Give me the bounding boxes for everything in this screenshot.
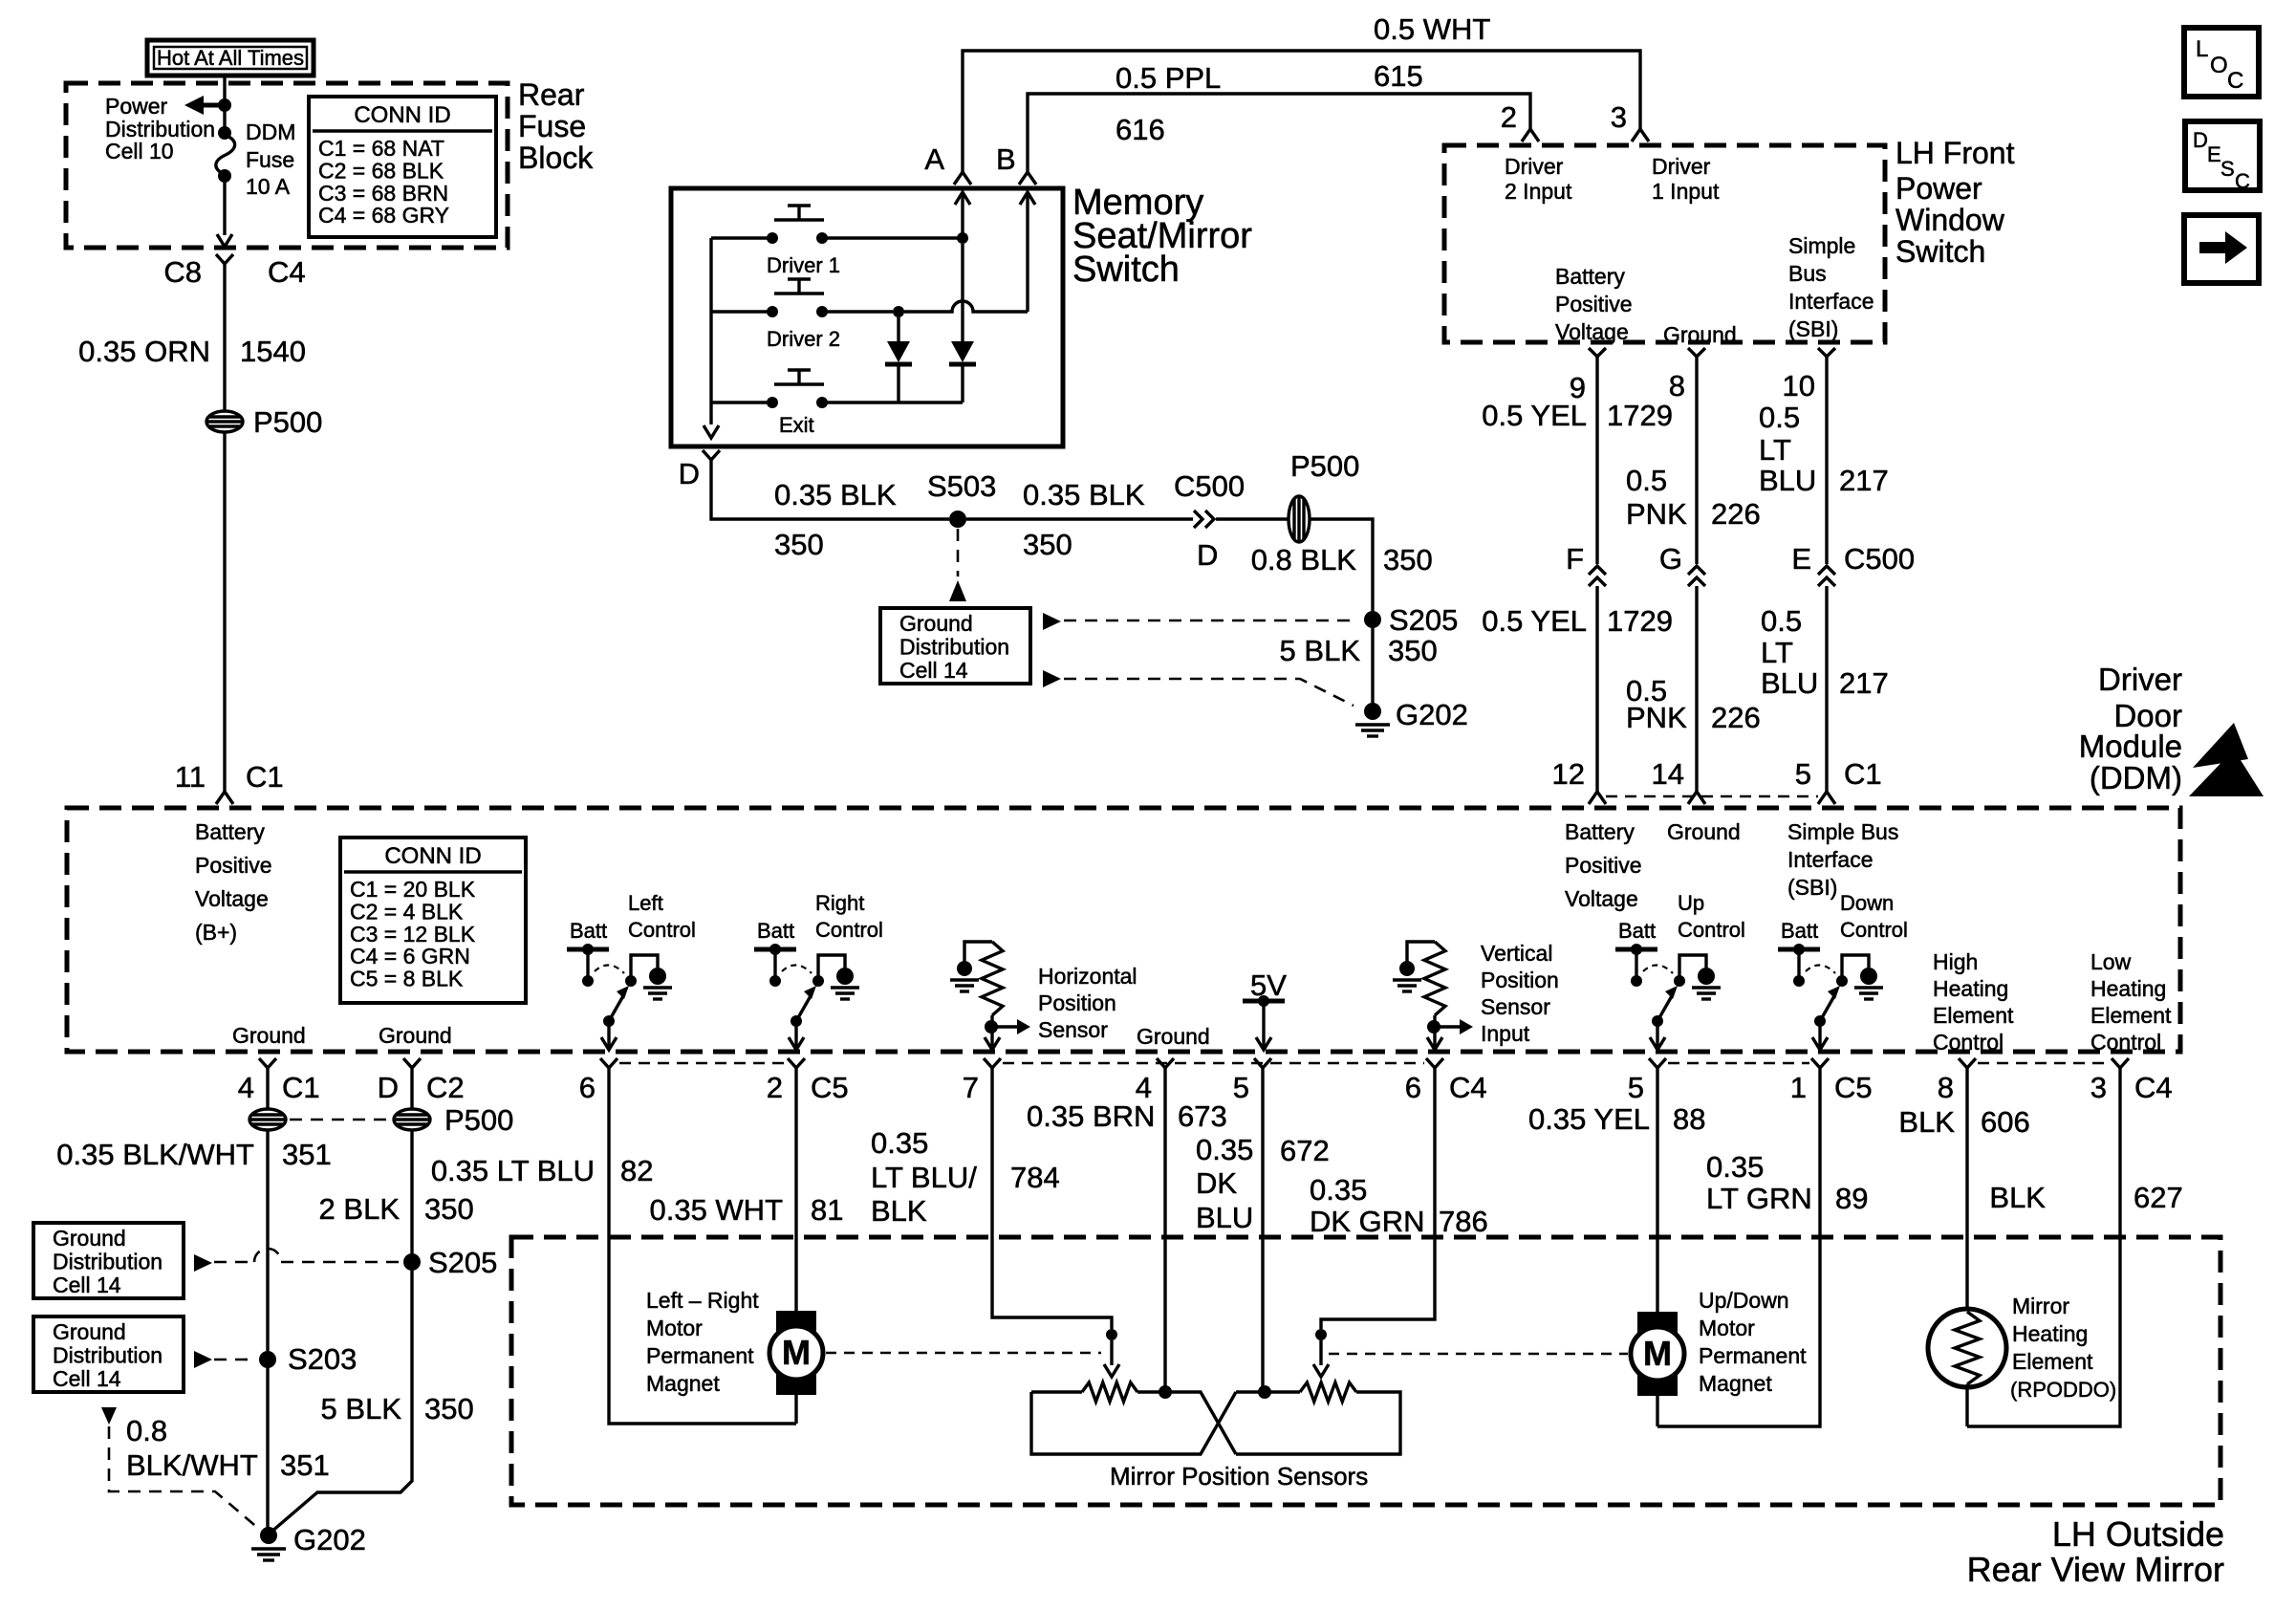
wire 1729 0.5 YEL (pin 9 to C500 F) bbox=[1595, 357, 1598, 564]
heater Mirror Heating Element RPODDO bbox=[1928, 1309, 2006, 1387]
svg-text:0.35 BLK: 0.35 BLK bbox=[774, 478, 897, 511]
svg-text:Control: Control bbox=[1933, 1030, 2004, 1055]
connector C8/C4 bbox=[216, 254, 233, 264]
junction box Ground Distribution Cell 14 (lower left) bbox=[33, 1316, 184, 1392]
splice S205 (left) bbox=[403, 1253, 421, 1271]
wire fuse to connector C8/C4 bbox=[223, 176, 226, 235]
svg-text:Control: Control bbox=[1840, 918, 1908, 942]
svg-text:Driver: Driver bbox=[1505, 154, 1564, 179]
svg-text:Positive: Positive bbox=[1555, 292, 1633, 316]
wiper horizontal sensor bbox=[1106, 1329, 1117, 1340]
svg-text:Left: Left bbox=[628, 891, 663, 915]
svg-text:Control: Control bbox=[815, 918, 883, 942]
node A-wire / Driver 1 bbox=[957, 232, 968, 244]
svg-text:Motor: Motor bbox=[1699, 1316, 1755, 1340]
icon ESD sensitive bbox=[2193, 723, 2248, 768]
pin 8 bbox=[1688, 348, 1705, 357]
svg-text:10: 10 bbox=[1783, 369, 1815, 402]
svg-text:Battery: Battery bbox=[1565, 819, 1635, 844]
svg-text:82: 82 bbox=[620, 1154, 653, 1187]
wire C500 to P500 bbox=[1216, 517, 1289, 520]
svg-text:217: 217 bbox=[1839, 464, 1889, 497]
svg-text:Positive: Positive bbox=[1565, 853, 1642, 878]
svg-text:7: 7 bbox=[963, 1071, 979, 1104]
arrow up on A wire inside switch bbox=[961, 192, 964, 238]
pin 8 at DDM bottom x=2058 bbox=[1959, 1058, 1976, 1068]
svg-text:Ground: Ground bbox=[53, 1319, 126, 1344]
svg-text:Control: Control bbox=[2090, 1030, 2161, 1055]
svg-text:Driver: Driver bbox=[1652, 154, 1711, 179]
svg-text:Ground: Ground bbox=[1667, 819, 1741, 844]
wire 81 0.35 WHT (pin 2 to motor) bbox=[794, 1068, 797, 1312]
svg-text:(DDM): (DDM) bbox=[2090, 760, 2182, 795]
pin B bbox=[1019, 172, 1036, 185]
switch Driver 2 bbox=[774, 292, 824, 294]
svg-text:0.5 YEL: 0.5 YEL bbox=[1482, 399, 1587, 432]
svg-text:4: 4 bbox=[238, 1071, 254, 1104]
svg-text:6: 6 bbox=[1405, 1071, 1421, 1104]
svg-text:BLU: BLU bbox=[1759, 464, 1816, 497]
svg-text:C1: C1 bbox=[282, 1071, 320, 1104]
svg-text:8: 8 bbox=[1669, 369, 1685, 402]
svg-text:Exit: Exit bbox=[779, 413, 814, 437]
svg-text:C2: C2 bbox=[426, 1071, 465, 1104]
connector outline DDM top C1 bbox=[1606, 795, 1818, 797]
svg-text:Fuse: Fuse bbox=[518, 109, 586, 143]
svg-text:Batt: Batt bbox=[570, 919, 607, 943]
svg-text:Battery: Battery bbox=[195, 819, 265, 844]
svg-text:88: 88 bbox=[1673, 1102, 1705, 1136]
wire 350 5 BLK (S205 to G202) bbox=[1371, 628, 1374, 704]
pin 2/C5 at DDM bottom x=833 bbox=[788, 1058, 805, 1068]
wire 89 0.35 LT GRN (motor to pin 1) bbox=[1657, 1068, 1820, 1426]
svg-text:0.35 BLK/WHT: 0.35 BLK/WHT bbox=[56, 1138, 254, 1171]
motor Left-Right Permanent Magnet bbox=[776, 1311, 816, 1332]
wire 217 0.5 LT BLU (E to DDM pin 5) bbox=[1825, 586, 1828, 792]
wire pin4 P500 to S203 bbox=[266, 1129, 269, 1352]
svg-text:Positive: Positive bbox=[195, 853, 272, 878]
arrow 351 0.8 BLK/WHT to G202 (dashed) bbox=[101, 1407, 117, 1425]
svg-text:5V: 5V bbox=[1250, 968, 1287, 1002]
svg-text:D: D bbox=[2193, 128, 2208, 152]
switch Driver 1 bbox=[774, 218, 824, 221]
splice S205 bbox=[1364, 611, 1381, 628]
svg-text:Ground: Ground bbox=[1663, 322, 1737, 347]
svg-text:G202: G202 bbox=[1396, 698, 1468, 731]
svg-text:C4: C4 bbox=[2134, 1071, 2173, 1104]
pin 1/C5 at DDM bottom x=1904 bbox=[1811, 1058, 1829, 1068]
svg-text:Ground: Ground bbox=[1137, 1024, 1210, 1049]
svg-text:5 BLK: 5 BLK bbox=[321, 1392, 402, 1425]
connector P500 (left) bbox=[206, 411, 243, 432]
resistor Mirror Position Sensors bbox=[1031, 1390, 1082, 1393]
svg-text:(RPODDO): (RPODDO) bbox=[2010, 1378, 2116, 1402]
connector outlines DDM bottom (dashed) bbox=[619, 1062, 786, 1064]
svg-text:Distribution: Distribution bbox=[53, 1250, 162, 1274]
svg-text:3: 3 bbox=[1611, 100, 1627, 134]
junction box Ground Distribution Cell 14 (upper left) bbox=[33, 1223, 184, 1298]
svg-text:S503: S503 bbox=[927, 469, 996, 503]
svg-text:Voltage: Voltage bbox=[1555, 319, 1629, 344]
svg-text:Element: Element bbox=[1933, 1003, 2014, 1028]
pin 12 into DDM bbox=[1589, 792, 1606, 804]
svg-text:BLK: BLK bbox=[1989, 1181, 2046, 1214]
svg-text:E: E bbox=[2207, 142, 2221, 166]
pin 14 into DDM bbox=[1688, 792, 1705, 804]
svg-text:Bus: Bus bbox=[1788, 261, 1827, 286]
svg-text:Cell 14: Cell 14 bbox=[899, 658, 968, 683]
svg-text:1729: 1729 bbox=[1607, 604, 1673, 638]
svg-text:Heating: Heating bbox=[1933, 976, 2008, 1001]
splice S203 bbox=[259, 1351, 276, 1368]
svg-text:Voltage: Voltage bbox=[195, 886, 269, 911]
svg-text:Voltage: Voltage bbox=[1565, 886, 1638, 911]
svg-text:Horizontal: Horizontal bbox=[1038, 964, 1137, 989]
table CONN ID (DDM) bbox=[340, 838, 526, 1003]
svg-text:1729: 1729 bbox=[1607, 399, 1673, 432]
svg-text:Interface: Interface bbox=[1788, 289, 1874, 314]
svg-text:Batt: Batt bbox=[1618, 919, 1656, 943]
pin 5 at DDM bottom x=1734 bbox=[1649, 1058, 1666, 1068]
svg-text:12: 12 bbox=[1552, 757, 1585, 791]
dashed tie P500 pair bbox=[290, 1119, 390, 1121]
svg-text:C1 = 68 NAT: C1 = 68 NAT bbox=[318, 136, 444, 161]
svg-text:0.5: 0.5 bbox=[1759, 401, 1800, 434]
pin 4/C1 at DDM bottom x=280 bbox=[259, 1058, 276, 1068]
motor Up/Down Permanent Magnet bbox=[1637, 1312, 1678, 1333]
svg-text:350: 350 bbox=[1023, 528, 1072, 561]
svg-text:0.35 WHT: 0.35 WHT bbox=[649, 1193, 783, 1227]
svg-text:Down: Down bbox=[1840, 891, 1894, 915]
wire 82 0.35 LT BLU (pin 6 to motor) bbox=[609, 1068, 776, 1424]
wire 615 0.5 WHT (A to window switch pin 3) bbox=[963, 51, 1640, 172]
pin D/C2 at DDM bottom x=431 bbox=[403, 1058, 421, 1068]
mechanical link left-right motor to sensor (dashed) bbox=[826, 1352, 1101, 1354]
svg-text:2 BLK: 2 BLK bbox=[319, 1192, 401, 1226]
svg-text:Vertical: Vertical bbox=[1481, 941, 1552, 966]
svg-text:Motor: Motor bbox=[646, 1316, 703, 1340]
svg-text:Simple: Simple bbox=[1788, 233, 1855, 258]
pin 9 bbox=[1589, 348, 1606, 357]
svg-text:350: 350 bbox=[1383, 543, 1433, 577]
svg-text:10 A: 10 A bbox=[246, 174, 291, 199]
wire 673 0.35 BRN (pin 4 to sensors) bbox=[1163, 1068, 1166, 1386]
svg-text:(B+): (B+) bbox=[195, 920, 237, 945]
wire 616 0.5 PPL (B to window switch pin 2) bbox=[1028, 94, 1530, 172]
svg-text:89: 89 bbox=[1835, 1182, 1868, 1215]
svg-text:Hot At All Times: Hot At All Times bbox=[157, 46, 304, 70]
node diode 1 tap bbox=[893, 306, 904, 317]
svg-text:Module: Module bbox=[2079, 729, 2182, 764]
pin 11 C1 into DDM bbox=[216, 792, 233, 804]
svg-text:0.35 LT BLU: 0.35 LT BLU bbox=[431, 1154, 595, 1187]
svg-text:M: M bbox=[782, 1333, 811, 1372]
svg-text:Sensor: Sensor bbox=[1038, 1017, 1108, 1042]
svg-text:LT: LT bbox=[1761, 636, 1793, 669]
svg-text:(SBI): (SBI) bbox=[1788, 316, 1838, 341]
svg-text:Power: Power bbox=[1895, 171, 1982, 206]
svg-text:C1: C1 bbox=[1844, 757, 1882, 791]
svg-text:5 BLK: 5 BLK bbox=[1280, 634, 1361, 667]
svg-text:BLU: BLU bbox=[1196, 1201, 1253, 1234]
svg-text:P500: P500 bbox=[1290, 449, 1359, 483]
svg-text:Rear View Mirror: Rear View Mirror bbox=[1967, 1550, 2224, 1589]
ground G202 (left) bbox=[260, 1527, 277, 1544]
svg-text:Switch: Switch bbox=[1072, 250, 1180, 290]
connector P500 (D row) bbox=[1289, 496, 1310, 542]
svg-text:C2 = 68 BLK: C2 = 68 BLK bbox=[318, 158, 444, 183]
arrow up on B wire inside switch bbox=[1026, 192, 1029, 312]
switch Right Control bbox=[754, 947, 796, 952]
svg-text:High: High bbox=[1933, 949, 1978, 974]
component box Memory Seat/Mirror Switch bbox=[671, 188, 1063, 446]
arrow Ground Distribution to S205 bbox=[1043, 613, 1061, 630]
node junction to Power Distribution bbox=[218, 98, 231, 112]
wire 226 0.5 PNK (G to DDM pin 14) bbox=[1695, 586, 1698, 792]
svg-text:BLK/WHT: BLK/WHT bbox=[126, 1448, 258, 1482]
svg-text:O: O bbox=[2210, 53, 2228, 78]
pin 7 at DDM bottom x=1038 bbox=[984, 1058, 1001, 1068]
arrow to S205 with hop bbox=[194, 1254, 212, 1272]
svg-text:0.5: 0.5 bbox=[1761, 604, 1802, 638]
ground G202 (right) bbox=[1364, 703, 1381, 720]
arrow to S203 bbox=[194, 1351, 212, 1368]
svg-text:Ground: Ground bbox=[232, 1023, 306, 1048]
svg-text:Cell 14: Cell 14 bbox=[53, 1273, 121, 1297]
svg-text:LT GRN: LT GRN bbox=[1706, 1182, 1812, 1215]
svg-text:C1 = 20 BLK: C1 = 20 BLK bbox=[350, 877, 476, 902]
svg-text:C4: C4 bbox=[268, 255, 306, 289]
svg-text:Mirror Position Sensors: Mirror Position Sensors bbox=[1110, 1462, 1368, 1490]
svg-text:0.5 YEL: 0.5 YEL bbox=[1482, 604, 1587, 638]
pin 5 C1 into DDM bbox=[1818, 792, 1835, 804]
svg-text:S205: S205 bbox=[1389, 603, 1458, 637]
svg-text:B: B bbox=[996, 142, 1016, 176]
svg-text:C5: C5 bbox=[1834, 1071, 1873, 1104]
wire 88 0.35 YEL (pin 5 to up/down motor) bbox=[1656, 1068, 1658, 1313]
pin 4 at DDM bottom x=1219 bbox=[1157, 1058, 1174, 1068]
svg-text:Ground: Ground bbox=[53, 1226, 126, 1251]
svg-text:S205: S205 bbox=[428, 1246, 497, 1279]
pin 6/C4 at DDM bottom x=1501 bbox=[1426, 1058, 1443, 1068]
wire 226 0.5 PNK (pin 8 to C500 G) bbox=[1695, 357, 1698, 564]
wire 627 BLK (heating element to pin 3) bbox=[1967, 1068, 2120, 1426]
svg-text:LH Outside: LH Outside bbox=[2052, 1514, 2224, 1554]
svg-text:6: 6 bbox=[579, 1071, 596, 1104]
svg-text:Element: Element bbox=[2012, 1349, 2093, 1374]
svg-text:A: A bbox=[924, 142, 944, 176]
svg-text:784: 784 bbox=[1010, 1161, 1060, 1194]
svg-text:Driver 2: Driver 2 bbox=[767, 327, 840, 351]
connector C500 E bbox=[1818, 566, 1835, 586]
svg-text:Cell 10: Cell 10 bbox=[105, 139, 174, 163]
svg-text:0.5 PPL: 0.5 PPL bbox=[1116, 61, 1221, 95]
icon box arrow bbox=[2184, 215, 2259, 283]
svg-text:673: 673 bbox=[1178, 1099, 1227, 1133]
svg-text:Window: Window bbox=[1895, 203, 2005, 237]
svg-text:350: 350 bbox=[424, 1392, 474, 1425]
svg-text:Magnet: Magnet bbox=[646, 1371, 720, 1396]
connector P500 (pinD wire) bbox=[394, 1109, 430, 1130]
svg-text:Distribution: Distribution bbox=[899, 635, 1009, 660]
svg-text:5: 5 bbox=[1628, 1071, 1644, 1104]
wire 1540 0.35 ORN bbox=[223, 264, 226, 412]
wire 672 0.35 DK BLU (pin 5 to sensors) bbox=[1261, 1068, 1264, 1386]
svg-text:Block: Block bbox=[518, 141, 594, 175]
svg-text:Fuse: Fuse bbox=[246, 147, 294, 172]
svg-text:Power: Power bbox=[105, 94, 168, 119]
arrow to Power Distribution Cell 10 bbox=[202, 103, 225, 108]
svg-text:Up: Up bbox=[1678, 891, 1704, 915]
svg-text:BLK: BLK bbox=[1898, 1105, 1955, 1139]
icon box LOC bbox=[2184, 28, 2259, 97]
wire Driver2 to B with hop over A wire bbox=[904, 301, 1028, 312]
svg-text:C1: C1 bbox=[246, 760, 284, 794]
svg-text:Heating: Heating bbox=[2090, 976, 2166, 1001]
switch Exit bbox=[774, 382, 824, 385]
svg-text:Rear: Rear bbox=[518, 77, 585, 112]
svg-text:8: 8 bbox=[1938, 1071, 1954, 1104]
splice S503 bbox=[949, 511, 966, 528]
svg-text:(SBI): (SBI) bbox=[1787, 875, 1837, 900]
svg-text:M: M bbox=[1643, 1334, 1672, 1373]
svg-text:786: 786 bbox=[1439, 1205, 1488, 1238]
svg-text:Batt: Batt bbox=[1781, 919, 1818, 943]
pin 3 Driver 1 Input bbox=[1632, 129, 1649, 141]
svg-text:0.5: 0.5 bbox=[1626, 464, 1667, 497]
connector P500 (pin4 wire) bbox=[249, 1109, 286, 1130]
pin 6 at DDM bottom x=637 bbox=[600, 1058, 617, 1068]
resistor Vertical Position Sensor bbox=[1407, 942, 1435, 968]
svg-text:Ground: Ground bbox=[899, 611, 973, 636]
arrow Ground Distribution to G202 bbox=[1043, 670, 1061, 687]
svg-text:G: G bbox=[1659, 542, 1682, 576]
table CONN ID (Rear Fuse Block) bbox=[309, 97, 496, 237]
svg-text:Permanent: Permanent bbox=[1699, 1343, 1807, 1368]
svg-text:81: 81 bbox=[811, 1193, 843, 1227]
svg-text:0.8 BLK: 0.8 BLK bbox=[1251, 543, 1357, 577]
svg-text:Right: Right bbox=[815, 891, 864, 915]
svg-text:616: 616 bbox=[1116, 113, 1165, 146]
component box LH Outside Rear View Mirror (dashed) bbox=[511, 1237, 2220, 1505]
connector C500 F bbox=[1589, 566, 1606, 586]
switch Left Control bbox=[567, 947, 609, 952]
svg-text:0.35: 0.35 bbox=[871, 1126, 928, 1160]
svg-text:C500: C500 bbox=[1844, 542, 1915, 576]
pin 2 Driver 2 Input bbox=[1522, 129, 1539, 141]
svg-text:Control: Control bbox=[628, 918, 696, 942]
svg-text:Battery: Battery bbox=[1555, 264, 1625, 289]
svg-text:Element: Element bbox=[2090, 1003, 2172, 1028]
svg-text:BLK: BLK bbox=[871, 1194, 927, 1228]
svg-text:615: 615 bbox=[1374, 59, 1423, 93]
svg-text:L: L bbox=[2196, 36, 2208, 62]
svg-text:C3 = 68 BRN: C3 = 68 BRN bbox=[318, 181, 448, 206]
wire S203 to G202 bbox=[266, 1367, 269, 1530]
svg-text:Permanent: Permanent bbox=[646, 1343, 754, 1368]
wire 350 2 BLK (P500 to S205) bbox=[410, 1129, 413, 1254]
svg-text:Sensor: Sensor bbox=[1481, 994, 1550, 1019]
svg-text:C5 = 8 BLK: C5 = 8 BLK bbox=[350, 967, 464, 991]
svg-text:Driver: Driver bbox=[2098, 662, 2182, 697]
diode CR2 (on A wire) bbox=[961, 244, 964, 341]
svg-text:0.35 ORN: 0.35 ORN bbox=[78, 335, 210, 368]
junction box Hot At All Times bbox=[147, 40, 314, 76]
svg-text:226: 226 bbox=[1711, 701, 1761, 734]
svg-text:Input: Input bbox=[1481, 1021, 1530, 1046]
svg-text:Position: Position bbox=[1038, 990, 1116, 1015]
svg-text:PNK: PNK bbox=[1626, 497, 1687, 531]
svg-text:C4: C4 bbox=[1449, 1071, 1487, 1104]
svg-text:P500: P500 bbox=[253, 405, 322, 439]
wire from Hot At All Times into fuse block bbox=[223, 76, 226, 131]
svg-text:1540: 1540 bbox=[240, 335, 306, 368]
wiper vertical sensor bbox=[1315, 1329, 1327, 1340]
wire 1729 0.5 YEL (F to DDM pin 12) bbox=[1595, 586, 1598, 792]
svg-text:2 Input: 2 Input bbox=[1505, 179, 1572, 204]
wire pin D to P500 bbox=[410, 1068, 413, 1110]
wire 784 0.35 LT BLU/BLK (pin 7 to horizontal sensor wiper) bbox=[992, 1068, 1112, 1329]
pin 10 bbox=[1818, 348, 1835, 357]
svg-text:D: D bbox=[378, 1071, 399, 1104]
svg-text:Switch: Switch bbox=[1895, 234, 1985, 269]
pin A bbox=[954, 172, 971, 185]
svg-text:C500: C500 bbox=[1174, 469, 1245, 503]
svg-text:Heating: Heating bbox=[2012, 1321, 2088, 1346]
svg-text:CONN ID: CONN ID bbox=[354, 102, 450, 128]
svg-text:350: 350 bbox=[1388, 634, 1438, 667]
svg-text:5: 5 bbox=[1795, 757, 1811, 791]
svg-text:D: D bbox=[679, 457, 700, 490]
svg-text:LT: LT bbox=[1759, 433, 1791, 467]
svg-text:350: 350 bbox=[774, 528, 824, 561]
svg-text:606: 606 bbox=[1981, 1105, 2030, 1139]
wire P500 to DDM pin 11 bbox=[223, 431, 226, 792]
fuse DDM Fuse 10 A bbox=[218, 126, 231, 140]
svg-text:Simple Bus: Simple Bus bbox=[1787, 819, 1898, 844]
svg-text:Left – Right: Left – Right bbox=[646, 1288, 759, 1313]
wire 606 BLK (pin 8 to heating element) bbox=[1965, 1068, 1968, 1312]
svg-text:0.35 BRN: 0.35 BRN bbox=[1027, 1099, 1155, 1133]
svg-text:Mirror: Mirror bbox=[2012, 1294, 2069, 1318]
svg-text:Position: Position bbox=[1481, 968, 1559, 992]
svg-text:Interface: Interface bbox=[1787, 847, 1874, 872]
svg-text:350: 350 bbox=[424, 1192, 474, 1226]
svg-text:S203: S203 bbox=[288, 1342, 357, 1376]
svg-text:1: 1 bbox=[1790, 1071, 1807, 1104]
svg-text:DDM: DDM bbox=[246, 120, 295, 144]
connector C500 D bbox=[1194, 511, 1214, 528]
svg-text:Driver 1: Driver 1 bbox=[767, 253, 840, 277]
wire 786 0.35 DK GRN (pin 6 C4 to vertical sensor wiper) bbox=[1321, 1068, 1435, 1329]
mechanical link up/down motor to sensor (dashed) bbox=[1329, 1353, 1628, 1355]
svg-text:C8: C8 bbox=[163, 255, 202, 289]
svg-text:0.5 WHT: 0.5 WHT bbox=[1374, 12, 1490, 46]
svg-text:Batt: Batt bbox=[757, 919, 794, 943]
pin 5 at DDM bottom x=1321 bbox=[1254, 1058, 1271, 1068]
svg-text:F: F bbox=[1566, 542, 1584, 576]
svg-text:2: 2 bbox=[767, 1071, 783, 1104]
svg-text:C5: C5 bbox=[811, 1071, 849, 1104]
svg-text:Low: Low bbox=[2090, 949, 2132, 974]
svg-text:LT BLU/: LT BLU/ bbox=[871, 1161, 977, 1194]
svg-text:226: 226 bbox=[1711, 497, 1761, 531]
svg-text:PNK: PNK bbox=[1626, 701, 1687, 734]
svg-text:C4 = 6 GRN: C4 = 6 GRN bbox=[350, 944, 470, 968]
svg-text:0.35 YEL: 0.35 YEL bbox=[1528, 1102, 1650, 1136]
svg-text:C3 = 12 BLK: C3 = 12 BLK bbox=[350, 922, 476, 946]
svg-text:C2 = 4 BLK: C2 = 4 BLK bbox=[350, 899, 464, 924]
